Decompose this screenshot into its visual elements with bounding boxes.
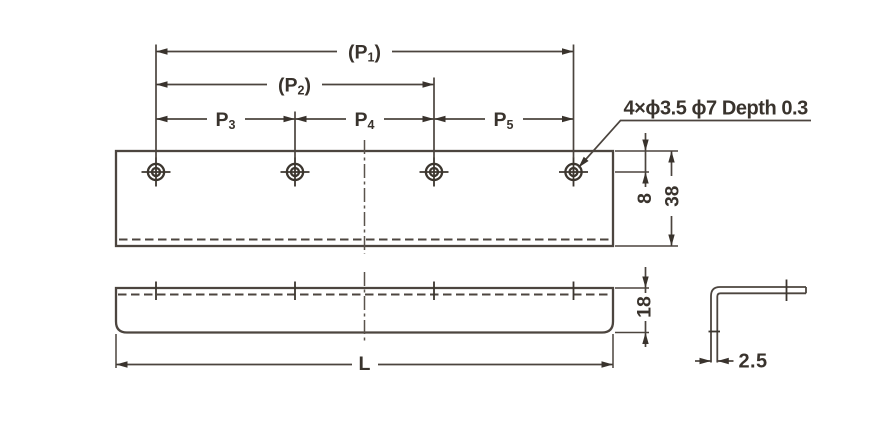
svg-text:38: 38 — [662, 186, 683, 207]
dimension 38 — [662, 151, 683, 246]
side profile end cap — [805, 287, 807, 293]
dimension 2.5 — [695, 351, 768, 373]
front view body outline — [116, 151, 613, 246]
side profile outer contour — [711, 287, 806, 363]
extension line hole 2 — [294, 112, 296, 159]
extension line bottom edge right — [615, 245, 678, 247]
side profile centre tick (horizontal leg) — [786, 280, 788, 302]
center line (front view vertical) — [364, 140, 366, 254]
extension line hole 3 — [433, 78, 435, 159]
svg-text:(P2): (P2) — [278, 75, 311, 98]
extension line 18 bottom — [615, 332, 649, 334]
svg-text:(P1): (P1) — [348, 42, 381, 65]
hole tick 3 (bottom view) — [433, 282, 435, 301]
hole tick 2 (bottom view) — [294, 282, 296, 301]
dimension P4 — [295, 109, 434, 132]
svg-text:18: 18 — [634, 296, 656, 318]
side profile inner contour — [717, 293, 806, 362]
dimension (P2) — [156, 75, 434, 98]
center line (bottom view vertical) — [364, 272, 366, 341]
dimension 8 — [634, 133, 656, 204]
mounting hole 4 — [559, 158, 588, 187]
hole tick 1 (bottom view) — [155, 282, 157, 301]
extension line 18 top — [615, 287, 649, 289]
dimension (P1) — [156, 42, 574, 65]
mounting hole 2 — [281, 158, 310, 187]
extension line L left — [115, 334, 117, 368]
svg-text:4×ϕ3.5 ϕ7 Depth 0.3: 4×ϕ3.5 ϕ7 Depth 0.3 — [624, 98, 809, 120]
side profile centre tick (vertical leg) — [709, 331, 721, 333]
dimension L — [116, 353, 613, 375]
dimension 18 — [634, 267, 656, 347]
dimension P5 — [434, 109, 574, 132]
hole tick 4 (bottom view) — [573, 282, 575, 301]
extension line top edge right — [615, 150, 678, 152]
mounting hole 1 — [142, 158, 171, 187]
mounting hole 3 — [420, 158, 449, 187]
extension line hole 4 — [573, 45, 575, 159]
svg-text:2.5: 2.5 — [739, 351, 768, 373]
hidden line (bottom view) — [118, 294, 611, 296]
svg-text:8: 8 — [634, 193, 656, 204]
extension line hole centre right — [615, 171, 649, 173]
svg-text:L: L — [359, 353, 371, 375]
bottom view outline — [116, 288, 613, 333]
extension line L right — [612, 334, 614, 368]
leader 4xphi3.5 phi7 Depth 0.3 — [579, 98, 812, 168]
dimension P3 — [156, 109, 295, 132]
extension line hole 1 — [155, 45, 157, 159]
hidden line (front view bottom fold) — [119, 239, 610, 241]
